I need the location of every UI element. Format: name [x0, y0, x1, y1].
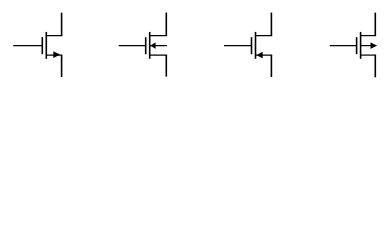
Q3 source wire horizontal: [256, 54, 273, 56]
Q4 body wire: [361, 45, 372, 47]
Q2 body arrow: [150, 42, 155, 49]
Q1 source stub vertical: [61, 55, 63, 77]
transistor Q2 (MOSFET, body arrow pointing left into channel): [119, 13, 167, 77]
Q1 source wire horizontal: [46, 54, 62, 56]
Q1 gate bar: [41, 37, 43, 54]
Q3 gate lead wire: [224, 45, 252, 47]
Q1 channel bar: [45, 32, 47, 59]
Q3 source stub vertical: [270, 55, 272, 77]
Q4 channel bar: [360, 32, 362, 59]
Q4 body arrow: [371, 42, 378, 49]
Q2 body wire: [150, 45, 167, 47]
Q2 drain stub vertical: [165, 13, 167, 36]
transistor Q1 (FET, source arrow pointing right): [13, 13, 62, 77]
Q4 drain stub vertical: [374, 13, 376, 36]
Q4 gate lead wire: [330, 45, 357, 47]
transistor Q3 (FET, source arrow pointing left toward channel): [224, 13, 272, 77]
Q2 source wire horizontal: [150, 54, 167, 56]
Q1 gate lead wire: [13, 45, 42, 47]
Q3 gate bar: [251, 37, 253, 54]
Q1 source arrow: [53, 51, 60, 58]
Q4 source stub vertical: [374, 55, 376, 77]
Q2 gate bar: [145, 37, 147, 54]
Q2 drain wire horizontal: [150, 35, 167, 37]
Q1 drain stub vertical: [61, 13, 63, 36]
Q4 drain wire horizontal: [361, 35, 377, 37]
Q1 drain wire horizontal: [46, 35, 62, 37]
Q3 channel bar: [255, 32, 257, 59]
Q3 source arrow: [256, 52, 262, 59]
Q3 drain wire horizontal: [256, 35, 273, 37]
Q2 channel bar: [149, 32, 151, 59]
Q2 gate lead wire: [119, 45, 146, 47]
Q3 drain stub vertical: [270, 13, 272, 36]
transistor Q4 (MOSFET, body arrow pointing right away from channel): [330, 13, 377, 78]
Q4 gate bar: [356, 37, 358, 54]
Q2 source stub vertical: [165, 55, 167, 77]
Q4 source wire horizontal: [361, 54, 377, 56]
